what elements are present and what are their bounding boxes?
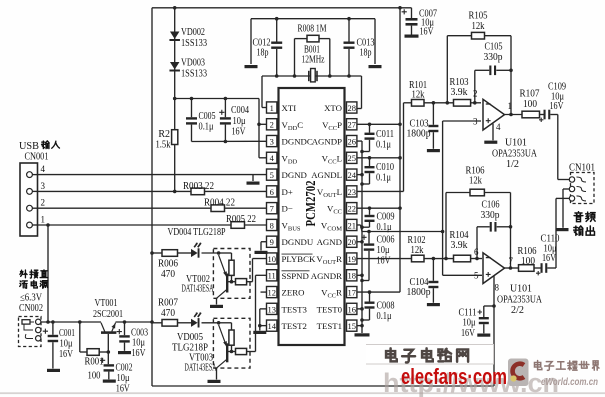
label U101 OPA2353UA 1/2: [492, 138, 538, 171]
capacitor C013 18p: [344, 17, 375, 78]
svg-text:330p: 330p: [484, 52, 503, 63]
pin 25 right: [322, 152, 357, 165]
svg-text:4: 4: [496, 122, 501, 132]
svg-text:19: 19: [347, 254, 356, 264]
ground xtal right: [369, 65, 382, 68]
svg-text:D−: D−: [282, 204, 293, 214]
svg-text:U101: U101: [505, 138, 527, 149]
pin 17 right: [321, 286, 357, 299]
wire page shadow bottom: [0, 392, 605, 394]
wire VBUS line: [38, 223, 267, 227]
node R2 to D+ junction: [173, 190, 177, 194]
svg-text:C006: C006: [377, 235, 395, 246]
pin 1 XTI: [267, 102, 297, 113]
capacitor C106 330p: [475, 200, 512, 269]
capacitor C009 0.1u: [360, 208, 394, 233]
pin 19 right: [316, 253, 356, 266]
diode VD003 1SS133: [169, 58, 207, 80]
svg-text:4: 4: [41, 164, 46, 174]
svg-text:1: 1: [270, 103, 274, 113]
svg-text:23: 23: [347, 187, 356, 197]
svg-text:0.1μ: 0.1μ: [376, 140, 391, 151]
capacitor C008 0.1u: [360, 292, 394, 322]
svg-text:16: 16: [347, 304, 356, 314]
svg-text:eWorld.com.cn: eWorld.com.cn: [541, 377, 598, 388]
wire opamp1 output: [505, 113, 523, 117]
svg-text:16V: 16V: [232, 127, 247, 138]
svg-text:16V: 16V: [132, 348, 147, 359]
svg-text:DAT143ESA: DAT143ESA: [185, 363, 217, 374]
capacitor C002 10u 16V: [100, 352, 133, 394]
pin 15 right: [317, 320, 357, 331]
ground VT003 collector: [208, 368, 221, 383]
svg-text:100: 100: [88, 371, 101, 382]
svg-text:3.9k: 3.9k: [451, 240, 468, 251]
watermark plate: [366, 344, 494, 365]
watermark eeworld logo: [508, 359, 529, 387]
capacitor C005 0.1u: [186, 97, 216, 142]
svg-text:470: 470: [161, 308, 175, 319]
node VDD rail left junction: [173, 97, 177, 101]
svg-text:TEST0: TEST0: [317, 304, 343, 314]
svg-text:7: 7: [509, 256, 514, 266]
resistor R001 100: [78, 320, 110, 381]
svg-text:AGNDP: AGNDP: [312, 137, 342, 147]
watermark http text: [383, 368, 559, 397]
svg-text:12k: 12k: [469, 176, 482, 187]
transistor VT003 DAT143ESA: [185, 318, 253, 373]
svg-text:12k: 12k: [412, 90, 425, 101]
svg-text:20: 20: [347, 237, 356, 247]
svg-text:16V: 16V: [550, 101, 565, 112]
pin 14 TEST2: [267, 320, 307, 331]
capacitor C103 1800p: [407, 101, 440, 152]
svg-text:1: 1: [508, 101, 513, 111]
svg-text:DGND: DGND: [282, 170, 307, 180]
svg-text:AGND: AGND: [317, 237, 342, 247]
svg-text:18p: 18p: [360, 48, 372, 59]
svg-text:470: 470: [161, 269, 175, 280]
svg-text:10μ: 10μ: [463, 318, 476, 329]
svg-text:DGNDU: DGNDU: [282, 237, 314, 247]
pin 4 VDD: [267, 152, 298, 165]
resistor R106 12k feedback: [444, 166, 510, 261]
svg-text:2: 2: [41, 198, 46, 208]
svg-text:11: 11: [268, 271, 276, 281]
svg-text:≤6.3V: ≤6.3V: [20, 293, 43, 304]
svg-text:10μ: 10μ: [377, 245, 390, 256]
svg-text:100: 100: [523, 99, 537, 110]
wire XTO riser: [357, 76, 362, 109]
wire Vcom riser: [442, 121, 444, 275]
wire opamp1 noninv input: [443, 120, 481, 122]
svg-text:XTI: XTI: [282, 103, 297, 113]
wire VT003 out to pin11: [253, 275, 267, 351]
svg-text:12: 12: [267, 287, 276, 297]
svg-text:C011: C011: [376, 129, 394, 140]
wire opamp1 input net: [404, 102, 482, 104]
svg-text:6: 6: [270, 187, 274, 197]
pin 16 right: [317, 303, 357, 314]
svg-text:VT001: VT001: [95, 298, 118, 309]
wire power line horizontal: [41, 320, 154, 324]
op-amp U101 2/2: [474, 247, 514, 293]
svg-text:2: 2: [473, 89, 478, 99]
wire D- line: [38, 207, 267, 209]
node VD002 top junction: [173, 6, 177, 10]
resistor R107 100: [520, 89, 540, 118]
svg-text:10μ: 10μ: [233, 116, 246, 127]
svg-text:10μ: 10μ: [60, 339, 73, 350]
svg-text:VD003: VD003: [181, 58, 205, 69]
svg-text:26: 26: [347, 136, 356, 146]
capacitor C111 10u 16V: [459, 306, 495, 339]
crystal B001 12MHz: [302, 45, 325, 82]
svg-text:12k: 12k: [411, 245, 424, 256]
svg-text:PCM2702: PCM2702: [303, 180, 318, 226]
svg-text:16V: 16V: [59, 349, 74, 360]
resistor R006 470: [158, 250, 178, 280]
pin 12 ZERO: [267, 286, 305, 297]
svg-text:R001: R001: [85, 357, 104, 368]
svg-text:R005 22: R005 22: [226, 214, 256, 225]
svg-text:2: 2: [270, 120, 274, 130]
capacitor C006 10u 16V: [360, 232, 394, 283]
svg-text:14: 14: [267, 321, 276, 331]
wire Vcc right rail: [399, 8, 401, 292]
pin 21 right: [321, 219, 357, 232]
svg-text:elecfans·com: elecfans·com: [401, 364, 507, 389]
svg-text:10: 10: [267, 254, 276, 264]
pin 3 DGNDC: [267, 135, 313, 146]
capacitor C110 10u 16V: [534, 234, 560, 276]
svg-text:R008 1M: R008 1M: [298, 24, 327, 35]
pin 23 right: [317, 186, 357, 199]
svg-text:SSPND: SSPND: [282, 271, 309, 281]
svg-text:R003 22: R003 22: [183, 181, 214, 192]
capacitor C012 18p: [253, 17, 283, 78]
resistor R2 1.5k: [156, 129, 178, 151]
svg-text:1SS133: 1SS133: [181, 69, 207, 80]
svg-text:TEST3: TEST3: [282, 304, 308, 314]
pin 10 PLYBCK: [267, 253, 316, 264]
svg-text:25: 25: [347, 153, 356, 163]
svg-text:3.9k: 3.9k: [451, 87, 468, 98]
capacitor C109 10u 16V: [539, 82, 566, 123]
svg-text:R107: R107: [520, 89, 540, 100]
watermark elecfans.com: [401, 364, 507, 389]
svg-text:2/2: 2/2: [511, 305, 524, 316]
svg-text:1.5k: 1.5k: [156, 140, 171, 151]
wire AGND bus: [357, 141, 364, 333]
pin 27 right: [322, 119, 357, 132]
resistor R104 3.9k: [450, 230, 471, 262]
ground AGND bus: [355, 333, 370, 336]
svg-text:C001: C001: [59, 328, 75, 339]
svg-text:CN002: CN002: [19, 303, 43, 314]
label U101 OPA2353UA 2/2: [497, 284, 543, 317]
svg-text:OPA2353UA: OPA2353UA: [492, 149, 538, 160]
svg-text:C008: C008: [377, 301, 395, 312]
svg-text:C004: C004: [231, 105, 249, 116]
svg-text:7: 7: [270, 204, 274, 214]
wire LED row2: [152, 322, 219, 324]
svg-text:D+: D+: [282, 187, 293, 197]
capacitor C011 0.1u: [360, 124, 394, 153]
svg-text:18: 18: [347, 271, 356, 281]
svg-text:3: 3: [270, 136, 274, 146]
svg-text:R2: R2: [158, 129, 170, 140]
svg-text:21: 21: [347, 220, 356, 230]
node top-right junction: [398, 6, 402, 10]
wire xtal ground top rail: [251, 19, 375, 64]
svg-text:R105: R105: [469, 11, 488, 22]
svg-text:5: 5: [270, 170, 274, 180]
IC U-PCM2702 body: [279, 88, 345, 345]
svg-text:15: 15: [347, 321, 356, 331]
ground CN101 common: [557, 189, 570, 231]
pin 8 VBUS: [267, 219, 301, 232]
svg-text:22: 22: [347, 204, 356, 214]
svg-text:8: 8: [270, 220, 274, 230]
svg-text:12k: 12k: [472, 21, 485, 32]
svg-text:1800p: 1800p: [407, 129, 431, 140]
svg-text:VD004 TLG218P: VD004 TLG218P: [168, 227, 226, 238]
label external DC supply: [19, 270, 48, 314]
transistor VT002 DAT143ESA: [182, 249, 253, 299]
ground pins13-14 TEST: [253, 309, 266, 334]
svg-text:1: 1: [41, 215, 46, 225]
wire pin21 Vcom: [357, 225, 445, 233]
wire pin25 VccL: [357, 156, 402, 160]
svg-text:DGNDC: DGNDC: [282, 137, 313, 147]
svg-text:12MHz: 12MHz: [302, 55, 325, 66]
wire opamp2 V+ drop: [492, 276, 496, 386]
wire DGNDC horizontal: [192, 140, 267, 142]
svg-text:XTO: XTO: [324, 103, 342, 113]
svg-text:USB: USB: [19, 141, 39, 152]
ground pin9 DGNDU: [255, 242, 268, 254]
pin 2 VDDC: [267, 119, 304, 132]
wire VDD to pin2 pin4: [257, 99, 266, 158]
wire D+ line: [38, 190, 267, 192]
svg-text:10μ: 10μ: [117, 373, 130, 384]
wire audio R to CN101: [556, 198, 569, 268]
svg-text:13: 13: [267, 304, 276, 314]
pin 26 right: [312, 135, 357, 146]
resistor R106 100: [518, 246, 537, 271]
connector CN001 USB input: [20, 163, 46, 236]
wire audio L to CN101: [558, 115, 570, 180]
pin 5 DGND: [267, 169, 307, 180]
svg-text:R007: R007: [158, 298, 178, 309]
svg-text:3: 3: [41, 181, 46, 191]
svg-text:100: 100: [521, 256, 535, 267]
wire pin17 VccR: [357, 290, 400, 294]
resistor R004 22: [204, 198, 235, 212]
capacitor C001 10u 16V: [43, 320, 75, 372]
pin 18 right: [311, 270, 357, 281]
wire pin23 VoutL: [357, 103, 404, 192]
svg-text:PLYBCK: PLYBCK: [282, 254, 316, 264]
connector CN002 DC jack: [19, 317, 42, 347]
svg-text:C009: C009: [377, 212, 395, 223]
pin 22 right: [327, 203, 357, 216]
svg-text:1800p: 1800p: [407, 287, 431, 298]
wire crystal net horizontal: [262, 75, 362, 77]
svg-text:0.1μ: 0.1μ: [199, 122, 214, 133]
wire pin12 ZERO stub: [261, 291, 267, 293]
svg-text:C010: C010: [376, 162, 394, 173]
diode VD002 1SS133: [169, 27, 207, 49]
svg-text:VD002: VD002: [181, 27, 205, 38]
wire opamp2 noninv input: [443, 274, 482, 276]
wire opamp2 output: [505, 266, 519, 270]
svg-text:AGNDR: AGNDR: [311, 271, 342, 281]
pin 28 right: [324, 102, 357, 113]
svg-text:OPA2353UA: OPA2353UA: [497, 295, 543, 306]
wire left VBUS rail: [151, 8, 153, 386]
pin 13 TEST3: [267, 303, 308, 314]
wire XTI riser: [262, 76, 267, 108]
svg-text:28: 28: [347, 103, 356, 113]
capacitor C104 1800p: [407, 257, 440, 306]
svg-text:16V: 16V: [420, 27, 435, 38]
svg-text:0.1μ: 0.1μ: [377, 311, 392, 322]
svg-text:24: 24: [347, 170, 356, 180]
watermark eeworld text: [534, 361, 598, 388]
resistor R103 3.9k: [450, 77, 471, 106]
svg-text:8: 8: [495, 283, 500, 293]
resistor R101 12k: [409, 80, 427, 106]
transistor VT001 2SC2001: [93, 298, 123, 352]
svg-text:R004 22: R004 22: [204, 198, 235, 209]
ground xtal left: [245, 65, 258, 68]
wire pin22 Vcc: [357, 206, 402, 210]
resistor R102 12k: [408, 235, 426, 262]
resistor R105 12k feedback: [446, 11, 512, 105]
ground opamp1: [484, 124, 497, 144]
label USB input: [19, 141, 59, 163]
wire VDD horizontal rail: [175, 98, 259, 100]
wire bottom V+ rail: [152, 385, 494, 387]
LED VD005 TLG218P: [172, 312, 208, 353]
wire LED row1: [152, 252, 219, 254]
svg-text:R006: R006: [158, 259, 178, 270]
svg-text:1SS133: 1SS133: [181, 38, 207, 49]
svg-text:6: 6: [474, 247, 479, 257]
label audio output: [574, 212, 595, 236]
pin 6 D+: [267, 186, 293, 197]
capacitor C003 10u 16V: [117, 320, 148, 359]
svg-text:2SC2001: 2SC2001: [93, 309, 123, 320]
pin 11 SSPND: [267, 270, 310, 281]
svg-text:0.1μ: 0.1μ: [376, 173, 391, 184]
svg-text:CN001: CN001: [25, 152, 49, 163]
connector CN101 audio output: [569, 163, 595, 204]
pin 20 right: [317, 236, 357, 247]
wire VBUS top rail: [152, 7, 412, 9]
svg-text:27: 27: [347, 120, 356, 130]
svg-text:1/2: 1/2: [506, 159, 519, 170]
wire pin27 VccP: [357, 122, 402, 126]
watermark dianzi dianlu wang: [386, 348, 468, 362]
svg-text:TEST1: TEST1: [317, 321, 342, 331]
capacitor C007 10u 16V: [402, 8, 437, 38]
wire VBUS drop to power line: [47, 225, 49, 322]
svg-text:C005: C005: [199, 111, 216, 122]
svg-text:TEST2: TEST2: [282, 321, 307, 331]
svg-text:VD005: VD005: [177, 332, 203, 343]
capacitor C105 330p: [473, 42, 513, 115]
svg-text:DAT143ESA: DAT143ESA: [182, 284, 214, 295]
svg-text:ZERO: ZERO: [282, 288, 305, 298]
ground VT002 collector: [210, 298, 223, 308]
node rail R006 junction: [150, 251, 154, 255]
pin 7 D-: [267, 203, 293, 214]
svg-text:330p: 330p: [481, 210, 500, 221]
svg-text:16V: 16V: [542, 253, 557, 264]
wire diode chain vertical: [174, 8, 176, 192]
resistor R007 470: [158, 298, 178, 327]
svg-text:C105: C105: [485, 42, 503, 53]
svg-text:17: 17: [347, 287, 356, 297]
resistor R003 22: [183, 181, 214, 195]
pin 24 right: [311, 169, 357, 180]
capacitor C004 10u 16V: [219, 97, 249, 144]
capacitor C010 0.1u: [360, 158, 394, 186]
wire pin19 VoutR net: [357, 258, 482, 260]
svg-text:18p: 18p: [257, 48, 269, 59]
svg-text:16V: 16V: [461, 328, 476, 339]
resistor R005 22: [226, 214, 256, 228]
resistor R008 1M: [293, 24, 332, 78]
svg-text:4: 4: [270, 153, 275, 163]
wire VT002 out to pin10: [253, 259, 267, 282]
svg-text:16V: 16V: [377, 256, 392, 267]
svg-text:C106: C106: [482, 200, 500, 211]
wire USB GND to pin5: [38, 174, 267, 176]
ground DGND stub: [247, 175, 260, 185]
op-amp U101 1/2: [473, 89, 512, 133]
svg-text:AGNDL: AGNDL: [311, 170, 342, 180]
LED VD004 TLG218P: [168, 227, 226, 258]
svg-text:U101: U101: [510, 284, 532, 295]
pin 9 DGNDU: [267, 236, 314, 247]
svg-text:9: 9: [270, 237, 274, 247]
